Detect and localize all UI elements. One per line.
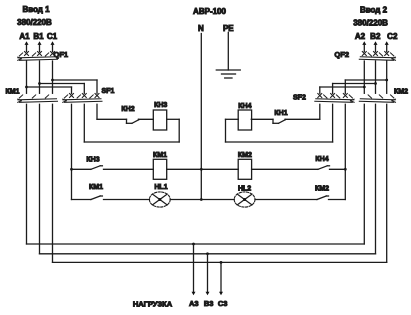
label Ввод 1: [22, 5, 50, 14]
svg-text:В2: В2: [370, 32, 381, 41]
wire KN4 coil to loop: [226, 119, 239, 142]
node bus B tap: [206, 252, 209, 255]
PE conductor: [227, 32, 229, 70]
terminal label B1: [33, 32, 44, 41]
contactor coil KM1: [153, 152, 167, 180]
input terminal C1 arrow: [51, 41, 55, 51]
node tee B2: [374, 82, 377, 85]
svg-text:КН3: КН3: [86, 157, 99, 164]
wire phase B1 to bus: [39, 104, 41, 254]
lamp HL1: [149, 184, 170, 207]
input terminal A1 arrow: [25, 41, 29, 51]
svg-text:КН2: КН2: [121, 106, 134, 113]
svg-text:HL2: HL2: [238, 186, 251, 193]
lamp HL2: [234, 186, 255, 207]
wire KM2 coil to KN4 contact: [252, 168, 318, 170]
wire phase C1 to bus: [52, 104, 54, 262]
wire KM1 coil to N: [167, 168, 202, 170]
bus phase B: [40, 253, 376, 255]
breaker SF2: [293, 94, 354, 103]
terminal label C1: [47, 32, 58, 41]
wire KM1 aux to HL1: [104, 199, 150, 201]
wire SF2 pole3 down: [344, 104, 346, 199]
contact KN3: [86, 157, 102, 170]
svg-text:380/220В: 380/220В: [17, 18, 52, 27]
wire row3 left start: [72, 199, 91, 201]
svg-text:А3: А3: [189, 299, 199, 308]
svg-text:Ввод 2: Ввод 2: [360, 5, 388, 14]
wire KN3 to KM1 coil: [104, 168, 154, 170]
wire phase A1 to bus: [26, 104, 28, 244]
label Ввод 2: [360, 5, 388, 14]
terminal label A1: [19, 32, 30, 41]
wire loop up to SF2 pole2: [332, 104, 334, 142]
contactor coil KM2: [238, 152, 252, 180]
wire SF1 pole1 down: [71, 104, 73, 199]
svg-text:АВР-100: АВР-100: [193, 7, 226, 16]
load terminal B3 arrow: [206, 254, 210, 295]
wire phase C2 vertical: [386, 61, 388, 93]
svg-text:HL1: HL1: [154, 184, 167, 191]
wire SF1 pole3 down to row1: [97, 104, 127, 119]
svg-text:QF2: QF2: [334, 50, 349, 59]
input terminal B1 arrow: [38, 41, 42, 51]
wire phase C1 vertical: [52, 61, 54, 93]
svg-text:КМ1: КМ1: [6, 89, 20, 96]
load terminal C3 arrow: [219, 262, 223, 295]
svg-text:Ввод 1: Ввод 1: [22, 5, 50, 14]
label N: [198, 24, 204, 33]
contact KN1: [273, 110, 288, 123]
svg-text:КН4: КН4: [238, 103, 251, 110]
node tee B1: [38, 82, 41, 85]
wire row1 right loop bottom: [226, 141, 333, 143]
wire phase A2 vertical: [363, 61, 365, 93]
circuit breaker QF2: [334, 50, 395, 61]
wire row1 left loop bottom: [84, 141, 179, 143]
svg-text:QF1: QF1: [54, 50, 69, 59]
wire phase A2 to bus: [363, 104, 365, 244]
load label C3: [218, 299, 228, 308]
title АВР-100: [193, 7, 226, 16]
wire row2 left start: [72, 168, 91, 170]
wire loop up to SF1 pole2: [83, 104, 85, 142]
wire HL2 to KM2 aux: [255, 199, 317, 201]
wire SF2 pole1 down to row1: [286, 104, 320, 119]
load terminal A3 arrow: [192, 244, 196, 295]
wire tee C2 to SF2 pole3: [345, 80, 386, 93]
terminal label B2: [370, 32, 381, 41]
wire tee B1 to SF1 pole2: [40, 84, 85, 94]
node tee A2: [363, 86, 366, 89]
svg-text:КМ1: КМ1: [89, 184, 103, 191]
wire N to KM2 coil: [201, 168, 238, 170]
node N row3 junction: [200, 198, 203, 201]
svg-text:SF1: SF1: [102, 88, 115, 95]
wire phase A1 vertical: [26, 61, 28, 93]
svg-text:С3: С3: [218, 299, 228, 308]
terminal label C2: [387, 32, 398, 41]
svg-text:SF2: SF2: [293, 94, 306, 101]
wire phase B2 to bus: [375, 104, 377, 254]
relay coil KN4: [238, 103, 251, 130]
contact KM2 aux: [315, 186, 329, 200]
label 380/220В input 1: [17, 18, 52, 27]
input terminal C2 arrow: [385, 41, 389, 51]
contact KN2: [121, 106, 138, 123]
node tee C2: [385, 79, 388, 82]
input terminal B2 arrow: [374, 41, 378, 51]
svg-text:N: N: [198, 24, 204, 33]
node bus C tap: [220, 261, 223, 264]
svg-text:КН3: КН3: [154, 102, 167, 109]
terminal label A2: [355, 32, 366, 41]
wire KN3 coil to loop: [167, 119, 180, 142]
svg-text:КМ1: КМ1: [153, 152, 167, 159]
wire phase B1 vertical: [39, 61, 41, 93]
wire tee A1 to SF1 pole1: [27, 87, 72, 93]
wire tee C1 to SF1 pole3: [53, 80, 98, 93]
contactor KM2 main contacts: [359, 89, 408, 103]
bus phase A: [27, 243, 365, 245]
node SF1 pole1 row2 junction: [70, 168, 73, 171]
label НАГРУЗКА: [133, 299, 173, 308]
svg-text:С1: С1: [47, 32, 58, 41]
ground symbol: [216, 70, 240, 78]
load label A3: [189, 299, 199, 308]
node N row2 junction: [200, 168, 203, 171]
wire KN4 contact to SF2 pole3: [330, 168, 346, 170]
svg-text:А2: А2: [355, 32, 366, 41]
wire N to HL2: [201, 199, 234, 201]
svg-text:КН1: КН1: [274, 110, 287, 117]
svg-text:В1: В1: [33, 32, 44, 41]
node SF2 pole3 row2 junction: [344, 168, 347, 171]
node tee A1: [25, 86, 28, 89]
svg-text:КМ2: КМ2: [315, 186, 329, 193]
label PE: [223, 24, 234, 33]
label 380/220В input 2: [353, 18, 388, 27]
svg-text:КН4: КН4: [315, 156, 328, 163]
svg-text:КМ2: КМ2: [238, 152, 252, 159]
contactor KM1 main contacts: [6, 89, 58, 103]
svg-text:С2: С2: [387, 32, 398, 41]
svg-text:НАГРУЗКА: НАГРУЗКА: [133, 299, 173, 308]
wire tee A2 to SF2 pole1: [320, 87, 365, 93]
node tee C1: [51, 79, 54, 82]
wire KM2 aux to SF2 pole3: [329, 199, 346, 201]
contact KN4 aux: [315, 156, 329, 169]
wire tee B2 to SF2 pole2: [333, 84, 376, 94]
svg-text:380/220В: 380/220В: [353, 18, 388, 27]
input terminal A2 arrow: [362, 41, 366, 51]
wire phase B2 vertical: [375, 61, 377, 93]
wire KN2 to KN3 coil: [139, 118, 154, 120]
wire KN1 to KN4 coil: [251, 118, 273, 120]
circuit breaker QF1: [18, 50, 68, 61]
svg-text:В3: В3: [204, 299, 214, 308]
bus phase C: [53, 261, 387, 263]
wire phase C2 to bus: [386, 104, 388, 262]
load label B3: [204, 299, 214, 308]
svg-text:КМ2: КМ2: [394, 89, 408, 96]
wire HL1 to N: [170, 199, 201, 201]
contact KM1 aux: [89, 184, 103, 200]
neutral line N: [200, 34, 202, 200]
node bus A tap: [192, 243, 195, 246]
breaker SF1: [63, 88, 115, 103]
relay coil KN3: [153, 102, 167, 130]
svg-text:А1: А1: [19, 32, 30, 41]
